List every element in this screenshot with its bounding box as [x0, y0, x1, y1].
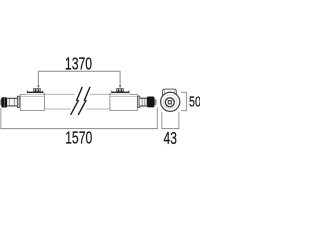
svg-text:43: 43 [164, 128, 178, 148]
left end nub [0, 99, 1, 105]
right pin cylinder [140, 98, 147, 106]
left collar band white [27, 93, 44, 94]
end view socket tab [163, 89, 177, 98]
right body shading line [110, 95, 137, 97]
left black end cap [1, 97, 7, 107]
left collar band black [27, 92, 44, 94]
left socket contacts [35, 89, 37, 91]
dimension 50 bracket [181, 92, 186, 111]
right socket box [117, 88, 124, 91]
svg-text:50: 50 [189, 93, 200, 110]
right cap body [110, 94, 137, 110]
left collar end ticks [26, 91, 29, 92]
end view mid ring [165, 98, 174, 107]
right collar band white [111, 93, 129, 94]
dimension 1570 extension right [156, 108, 158, 130]
end view faint ring [163, 95, 177, 109]
right flange ring [138, 96, 140, 108]
right collar band black [111, 92, 129, 94]
left cap body [20, 94, 44, 110]
dimension 1370 arrow left [37, 85, 40, 88]
dimension 1370 arrow right [119, 85, 122, 88]
end view center cross arms [168, 100, 172, 104]
left socket box [34, 88, 41, 91]
svg-text:1570: 1570 [65, 128, 92, 148]
dimension 43 extension lines [162, 112, 179, 129]
dimension 1570 line [0, 128, 157, 130]
break mark bolt 1 [71, 87, 83, 115]
right black end cap [147, 97, 155, 108]
break mark bolt 2 [78, 87, 90, 115]
end view outer circle [161, 92, 180, 111]
left body edge extension [43, 93, 45, 95]
tube glass outline top [45, 93, 110, 95]
left pin cylinder [7, 98, 17, 106]
dimension 1570 extension left [0, 108, 2, 129]
right body edge extension [109, 93, 111, 95]
right collar end ticks [110, 91, 113, 92]
left flange ring [17, 96, 20, 107]
dimension 43 line [162, 128, 179, 130]
tube glass outline bottom [45, 108, 110, 110]
svg-text:1370: 1370 [65, 54, 92, 74]
left body shading line [21, 95, 44, 97]
right socket contacts [118, 89, 120, 91]
right end nub [155, 99, 157, 105]
end view center pin circle [168, 101, 172, 105]
dimension 1370 line [38, 71, 120, 86]
